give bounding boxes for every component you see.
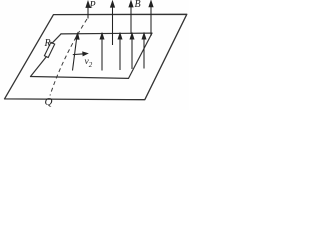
label R <box>45 38 51 49</box>
conducting loop: bottom edge <box>31 77 129 79</box>
field arrow B1 (at P) <box>87 3 89 19</box>
wire: loop top-left corner to resistor <box>52 34 61 44</box>
long B-field arrows above plane <box>86 1 153 45</box>
wire: resistor to loop bottom-left corner <box>31 57 47 77</box>
label Q <box>45 96 53 108</box>
conducting loop: top edge <box>61 32 152 35</box>
field arrow B2 <box>112 3 114 45</box>
label B <box>135 0 141 10</box>
velocity arrow v2 <box>73 52 88 56</box>
loop field arrow b1 <box>73 37 77 71</box>
loop field arrow b4 <box>131 37 133 69</box>
resistor R (slanted rectangle) <box>44 42 54 57</box>
label P <box>90 0 96 11</box>
loop field arrow b2 <box>101 37 103 71</box>
field arrow B4 <box>150 2 152 36</box>
conducting loop: right edge <box>129 33 153 78</box>
loop field arrow b3 <box>119 37 121 70</box>
dashed line P-Q <box>50 19 87 96</box>
label v2 <box>85 57 93 69</box>
field arrow B3 (labelled B) <box>130 3 132 34</box>
short field arrows inside loop, heads at loop top edge <box>73 33 146 70</box>
inclined plane outline (outer parallelogram) <box>5 14 187 99</box>
loop field arrow b5 <box>143 37 145 69</box>
